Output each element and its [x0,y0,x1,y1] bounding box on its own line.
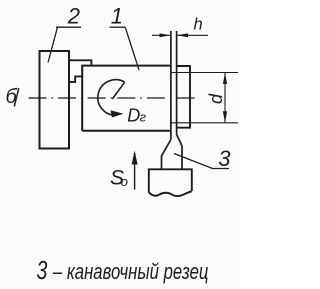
d top extension line (groove bottom) [171,72,238,74]
label 2 leader [48,27,58,62]
h dimension line right segment with arrow [177,33,208,37]
workpiece cylinder 1 [82,66,171,131]
chuck jaw outer step [69,60,91,65]
groove right wall / h extension / insert right [176,31,178,135]
label 1 underline [110,26,126,28]
caption: 3 - kanavochny rezets [37,255,209,284]
d dimension line with arrows [223,73,227,123]
label 2 underline [56,26,81,28]
rotation symbol Dg arc [98,80,125,116]
groove left wall / h extension / insert left [170,31,172,140]
label 3 leader [174,154,229,169]
rotation symbol chord [112,82,124,99]
svg-text:d: d [206,93,226,104]
svg-text:3– канавочный резец: 3– канавочный резец [37,255,209,284]
svg-text:h: h [194,15,203,33]
svg-text:o: o [121,174,128,189]
h dimension line left segment with arrow [152,33,171,37]
label 1 leader [125,27,139,70]
svg-text:D: D [127,105,140,125]
rotation symbol arrowhead [111,110,124,117]
ring end piece [177,66,190,128]
svg-text:1: 1 [111,4,123,29]
centerline axis [29,97,197,99]
svg-text:2: 2 [67,3,80,28]
grooving tool 3: insert shank [162,135,183,170]
svg-text:б: б [6,86,18,108]
d bottom extension line (groove bottom) [171,122,238,124]
feed arrow So [132,151,138,190]
chuck body 2 [40,51,70,149]
tool holder block with wavy break bottom [149,169,192,196]
chuck jaw inner staircase [69,76,82,82]
svg-text:г: г [140,110,147,125]
svg-text:3: 3 [218,146,231,171]
